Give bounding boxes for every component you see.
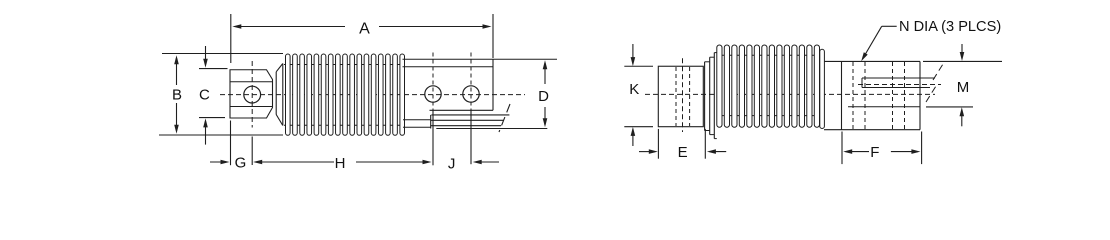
svg-text:F: F [870,144,879,161]
svg-text:K: K [629,81,639,98]
svg-text:C: C [199,86,210,103]
svg-text:N DIA (3 PLCS): N DIA (3 PLCS) [899,19,1001,35]
svg-text:D: D [538,88,549,105]
svg-text:A: A [359,21,370,38]
svg-text:E: E [678,144,688,161]
svg-text:J: J [448,156,456,173]
svg-text:M: M [957,79,970,96]
svg-text:H: H [335,155,346,172]
svg-text:B: B [172,86,182,103]
svg-text:G: G [235,155,247,172]
